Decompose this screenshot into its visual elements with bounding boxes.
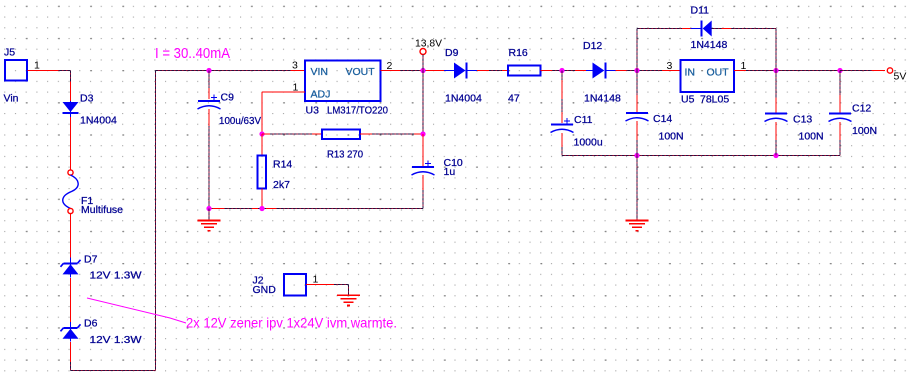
svg-text:100N: 100N xyxy=(799,131,824,143)
svg-text:1N4004: 1N4004 xyxy=(80,115,117,127)
svg-text:1N4148: 1N4148 xyxy=(584,93,621,105)
svg-text:R14: R14 xyxy=(273,159,292,171)
svg-text:R13 270: R13 270 xyxy=(327,149,363,161)
svg-text:13,8V: 13,8V xyxy=(415,38,442,50)
svg-text:3: 3 xyxy=(292,60,298,72)
svg-text:D9: D9 xyxy=(445,47,459,59)
svg-text:D3: D3 xyxy=(80,93,94,105)
svg-text:1N4148: 1N4148 xyxy=(691,39,728,51)
svg-text:C12: C12 xyxy=(852,103,871,115)
svg-text:1N4004: 1N4004 xyxy=(445,93,482,105)
svg-text:1u: 1u xyxy=(444,166,456,178)
svg-text:U3: U3 xyxy=(306,105,320,117)
svg-text:Multifuse: Multifuse xyxy=(81,204,123,216)
svg-text:GND: GND xyxy=(253,284,277,296)
svg-text:C13: C13 xyxy=(793,114,812,126)
svg-text:D11: D11 xyxy=(691,5,710,17)
svg-text:I = 30..40mA: I = 30..40mA xyxy=(155,45,231,62)
svg-text:C9: C9 xyxy=(221,92,235,104)
svg-text:5V: 5V xyxy=(894,71,907,83)
svg-text:100N: 100N xyxy=(659,131,684,143)
svg-text:12V 1.3W: 12V 1.3W xyxy=(90,334,142,346)
svg-text:D6: D6 xyxy=(84,318,98,330)
svg-text:ADJ: ADJ xyxy=(311,89,331,101)
svg-text:OUT: OUT xyxy=(707,67,730,79)
svg-text:3: 3 xyxy=(667,60,673,72)
svg-text:VIN: VIN xyxy=(311,66,329,78)
svg-text:R16: R16 xyxy=(509,47,528,59)
svg-text:78L05: 78L05 xyxy=(700,94,729,106)
svg-text:D7: D7 xyxy=(84,254,98,266)
svg-text:1: 1 xyxy=(313,274,319,286)
svg-text:LM317/TO220: LM317/TO220 xyxy=(327,105,388,117)
svg-text:C11: C11 xyxy=(574,114,593,126)
svg-text:D12: D12 xyxy=(583,40,602,52)
svg-text:2x 12V zener ipv 1x24V ivm war: 2x 12V zener ipv 1x24V ivm warmte. xyxy=(186,315,397,331)
svg-text:VOUT: VOUT xyxy=(346,66,376,78)
svg-text:IN: IN xyxy=(685,67,696,79)
svg-text:J5: J5 xyxy=(4,47,15,59)
svg-text:U5: U5 xyxy=(681,94,695,106)
svg-text:2k7: 2k7 xyxy=(273,179,290,191)
svg-text:12V 1.3W: 12V 1.3W xyxy=(90,270,142,282)
svg-text:47: 47 xyxy=(508,93,520,105)
svg-text:1000u: 1000u xyxy=(574,137,603,149)
svg-text:Vin: Vin xyxy=(4,93,19,105)
svg-text:100u/63V: 100u/63V xyxy=(219,115,261,127)
svg-text:1: 1 xyxy=(34,60,40,72)
svg-text:100N: 100N xyxy=(852,125,877,137)
svg-text:C14: C14 xyxy=(653,113,672,125)
